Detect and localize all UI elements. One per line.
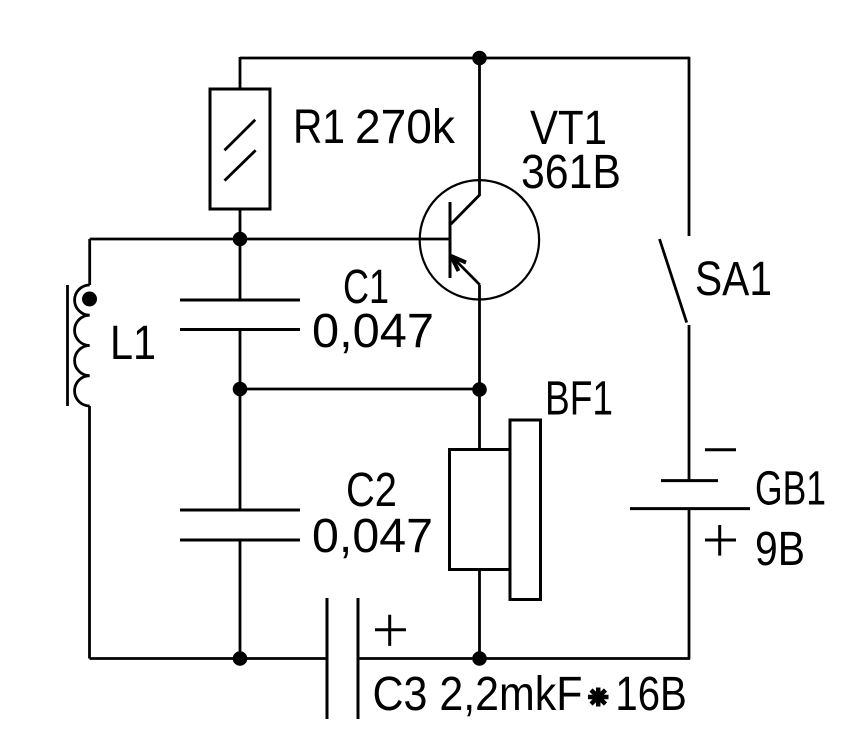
svg-text:SA1: SA1 (695, 253, 772, 306)
svg-text:L1: L1 (110, 317, 156, 370)
svg-text:270k: 270k (355, 101, 456, 154)
battery GB1 (630, 450, 750, 556)
node base-R1-C1 junction (233, 232, 248, 247)
wire C1 to C2 (239, 330, 242, 511)
wire top rail (240, 57, 689, 60)
wire R1 top lead (239, 57, 242, 90)
wire middle rail (240, 388, 480, 391)
capacitor C3 (327, 598, 406, 719)
svg-text:GB1: GB1 (755, 463, 826, 516)
node bottom-right junction (472, 651, 487, 666)
node mid-left junction (233, 382, 248, 397)
svg-text:361В: 361В (521, 146, 621, 199)
wire right side top (688, 57, 691, 236)
wire BF1 to bottom rail (478, 570, 481, 659)
svg-text:R1: R1 (293, 101, 345, 154)
wire L1 bottom to rail (88, 406, 91, 659)
svg-text:C3 2,2mkF: C3 2,2mkF (373, 668, 583, 721)
wire emitter to BF1 (478, 285, 481, 450)
wire switch to battery (688, 325, 691, 481)
inductor L1 (68, 239, 98, 406)
wire base rail (90, 238, 450, 241)
wire bottom rail left (90, 657, 328, 660)
svg-text:16В: 16В (615, 668, 686, 721)
sounder BF1 (450, 420, 541, 600)
node top junction (472, 51, 487, 66)
star separator (588, 688, 609, 707)
wire R1 bottom to C1 (239, 209, 242, 300)
capacitor C1 (180, 300, 300, 330)
wire bottom rail right (358, 657, 690, 660)
node bottom-left junction (233, 651, 248, 666)
switch SA1 (660, 239, 687, 323)
wire C2 to bottom rail (239, 540, 242, 659)
svg-text:BF1: BF1 (545, 373, 613, 426)
transistor VT1 (420, 58, 539, 300)
wire battery to bottom rail (688, 509, 691, 659)
resistor R1 (210, 89, 270, 209)
svg-text:0,047: 0,047 (312, 305, 434, 358)
svg-text:9В: 9В (755, 523, 805, 576)
svg-text:0,047: 0,047 (312, 510, 433, 563)
node mid-right junction (472, 382, 487, 397)
capacitor C2 (180, 510, 300, 540)
